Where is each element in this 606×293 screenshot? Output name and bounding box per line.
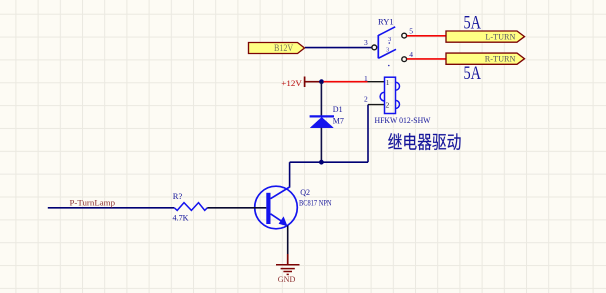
coil arc left middle (380, 92, 384, 101)
emitter lead (271, 214, 285, 223)
pin 4 circle (402, 57, 407, 62)
resistor R? 4.7K (173, 191, 208, 223)
wire pin4 to R-TURN (407, 58, 446, 60)
svg-text:2: 2 (386, 101, 390, 110)
ground GND (276, 254, 300, 284)
wire P-TurnLamp to resistor (48, 207, 175, 209)
pin 2 stub (368, 104, 385, 106)
wire diode to collector rail (320, 128, 322, 163)
svg-text:2: 2 (364, 94, 368, 103)
collector rail wire (290, 161, 368, 163)
svg-text:GND: GND (278, 275, 296, 284)
svg-text:R-TURN: R-TURN (485, 54, 516, 64)
coil body rectangle (385, 77, 396, 113)
wire emitter down (287, 226, 289, 255)
svg-text:HFKW 012-SHW: HFKW 012-SHW (375, 116, 431, 125)
annotation text 继电器驱动 (relay driver) (388, 133, 460, 150)
port B12V (249, 43, 305, 54)
svg-text:1: 1 (364, 74, 368, 83)
svg-text:3: 3 (386, 47, 389, 54)
port L-TURN (446, 31, 525, 42)
svg-text:B12V: B12V (274, 43, 294, 53)
svg-text:3: 3 (388, 36, 391, 43)
transistor Q2 BC817 NPN (255, 186, 332, 229)
svg-text:3: 3 (364, 38, 368, 47)
wire coil pin2 down (367, 105, 369, 163)
svg-text:5A: 5A (464, 13, 482, 34)
wire resistor to base (207, 207, 266, 209)
svg-text:R?: R? (173, 191, 183, 201)
armature to pin 5 (378, 27, 395, 36)
svg-text:4.7K: 4.7K (173, 213, 190, 223)
pin 3 circle (372, 45, 377, 50)
wire +12V junction down to diode (320, 82, 322, 116)
svg-text:1: 1 (386, 78, 390, 87)
emitter arrow (279, 216, 288, 226)
wire pin5 to L-TURN (407, 35, 446, 37)
svg-text:4: 4 (409, 50, 413, 59)
base bar (266, 193, 270, 224)
relay coil RY1 (364, 74, 431, 125)
svg-text:P-TurnLamp: P-TurnLamp (70, 198, 116, 208)
coil arc right top (396, 82, 400, 90)
relay RY1 switch (364, 17, 413, 67)
port R-TURN (446, 53, 525, 64)
svg-text:L-TURN: L-TURN (485, 31, 515, 41)
collector lead (271, 187, 290, 199)
switch bar (377, 35, 379, 58)
svg-text:D1: D1 (333, 105, 343, 114)
svg-text:5A: 5A (464, 63, 482, 84)
diode D1 (310, 105, 344, 128)
power port +12V (281, 77, 320, 88)
svg-text:+12V: +12V (281, 78, 303, 88)
svg-text:RY1: RY1 (378, 17, 394, 27)
pin 1 stub (368, 81, 385, 83)
svg-text:BC817 NPN: BC817 NPN (299, 199, 332, 208)
pin 5 circle (402, 33, 407, 38)
svg-text:M7: M7 (333, 116, 344, 125)
junction node on collector rail (319, 160, 324, 165)
wire rail down to collector (289, 162, 291, 187)
armature to pin 4 (378, 49, 396, 58)
svg-text:5: 5 (409, 27, 413, 36)
wire junction to coil pin 1 (red) (324, 81, 368, 83)
svg-text:Q2: Q2 (300, 188, 310, 197)
junction node at +12V rail (319, 79, 324, 84)
coil arc right bottom (396, 100, 400, 108)
wire B12V to relay pin 3 (305, 47, 372, 49)
